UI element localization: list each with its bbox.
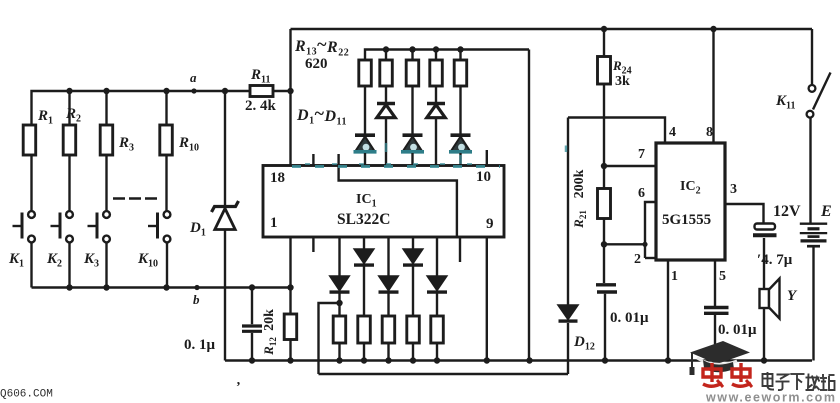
scan artifact dashes	[292, 165, 500, 168]
watermark graduation cap	[690, 341, 750, 364]
resistor bank column 4	[433, 46, 439, 52]
capacitor C 0.01u left	[601, 241, 607, 247]
pin 1 stub	[667, 260, 669, 361]
resistor lower column 1	[333, 316, 346, 343]
capacitor C 0.1u	[249, 284, 255, 290]
svg-text:9: 9	[486, 216, 494, 232]
svg-text:10: 10	[476, 169, 491, 185]
resistor R12 20k	[287, 284, 293, 290]
wire K11 to battery	[809, 118, 811, 223]
pin 9 drop wire	[486, 237, 488, 361]
diode lower column 3	[387, 237, 389, 276]
svg-text:20k: 20k	[262, 309, 277, 331]
diode bank column 4	[427, 102, 445, 106]
svg-text:200k: 200k	[572, 169, 587, 198]
switch K3	[103, 211, 110, 218]
pin stub top 313	[312, 154, 314, 166]
watermark site name	[763, 372, 775, 390]
svg-text:SL322C: SL322C	[337, 211, 390, 228]
diode lower column 1	[338, 237, 340, 276]
resistor bank column 5	[457, 46, 463, 52]
svg-text:5G1555: 5G1555	[662, 212, 711, 228]
svg-text:3: 3	[730, 182, 737, 197]
diode bank (teal) column 1	[355, 133, 375, 137]
svg-text:3k: 3k	[615, 74, 630, 89]
resistor lower column 2	[358, 316, 371, 343]
svg-text:a: a	[190, 70, 197, 85]
node a	[191, 88, 196, 93]
svg-text:Q606.COM: Q606.COM	[0, 389, 53, 401]
resistor R24 3k	[601, 26, 607, 32]
pin stub top 487	[486, 150, 488, 166]
diode lower column 2	[363, 237, 365, 249]
wire pin3 out	[725, 204, 764, 223]
resistor lower column 5	[431, 316, 444, 343]
svg-text:6: 6	[638, 186, 645, 201]
wire bank bus drop to rail	[528, 50, 530, 361]
switch K10	[164, 211, 171, 218]
wire top-left bus a	[32, 91, 251, 125]
svg-text:5: 5	[719, 269, 726, 284]
timer U2 IC2 5G1555	[656, 143, 725, 260]
switch K1	[28, 211, 35, 218]
resistor R10	[163, 88, 169, 94]
wire feedback L to lower rail	[319, 303, 340, 374]
diode bank (teal) column 3	[403, 133, 423, 137]
capacitor C 4.7u electrolytic	[755, 224, 776, 230]
pin 5 stub	[714, 260, 716, 306]
node feedback junction	[336, 300, 342, 306]
pin 8	[712, 29, 714, 143]
svg-text:2: 2	[634, 252, 641, 267]
svg-text:E: E	[820, 203, 832, 220]
wire top supply bus	[291, 28, 813, 30]
watermark chongchong red	[703, 363, 723, 387]
wire internal crossing	[339, 166, 457, 238]
wire trigger link pins 6-2	[645, 202, 656, 258]
capacitor C 0.01u right	[704, 306, 729, 309]
svg-text:18: 18	[270, 170, 285, 186]
wire pin4 feed	[568, 118, 665, 144]
diode D1 zener	[222, 88, 228, 94]
resistor R1	[30, 155, 32, 212]
diode lower column 5	[436, 237, 438, 276]
resistor R11	[250, 86, 273, 97]
resistor lower column 4	[407, 316, 420, 343]
svg-text:12V: 12V	[773, 203, 801, 220]
svg-text:’: ’	[236, 380, 241, 395]
pin stub bottom 460	[459, 237, 461, 262]
svg-text:0. 01μ: 0. 01μ	[718, 322, 757, 338]
svg-text:www.eeworm.com: www.eeworm.com	[705, 391, 837, 403]
speaker Y	[763, 308, 765, 361]
op-amp U1 IC1 SL322C	[263, 166, 504, 238]
dashed continuation hint	[113, 197, 160, 200]
svg-text:2. 4k: 2. 4k	[245, 98, 277, 114]
node b	[194, 285, 199, 290]
resistor R2	[66, 88, 72, 94]
switch K11	[811, 29, 813, 85]
diode bank column 2	[377, 102, 395, 106]
svg-text:1: 1	[270, 215, 278, 231]
diode D12	[567, 118, 569, 305]
svg-text:4: 4	[669, 125, 676, 140]
svg-text:ʹ4. 7μ: ʹ4. 7μ	[757, 252, 793, 268]
svg-text:7: 7	[638, 147, 645, 162]
wire ground rail	[225, 359, 812, 361]
wire pin7 link	[601, 163, 607, 169]
switch K2	[66, 211, 73, 218]
svg-text:620: 620	[305, 56, 328, 72]
wire bottom bus b	[32, 286, 291, 288]
wire lower return rail	[319, 373, 569, 375]
diode lower column 4	[412, 237, 414, 249]
resistor R3	[103, 88, 109, 94]
diode bank (teal) column 5	[451, 133, 471, 137]
resistor bank column 2	[383, 46, 389, 52]
svg-text:8: 8	[706, 125, 713, 140]
svg-text:0. 1μ: 0. 1μ	[184, 337, 216, 353]
pin stub top 338	[337, 154, 339, 166]
resistor bank column 3	[409, 46, 415, 52]
svg-text:1: 1	[671, 269, 678, 284]
svg-text:0. 01μ: 0. 01μ	[610, 310, 649, 326]
pin stub bottom 313	[312, 237, 314, 252]
resistor lower column 3	[382, 316, 395, 343]
resistor bank column 1	[359, 60, 372, 86]
svg-text:b: b	[193, 292, 200, 307]
wire bank bus	[365, 50, 529, 61]
battery E 12V	[800, 223, 827, 225]
wire riser to R11 junction	[289, 29, 291, 166]
resistor R21 200k	[603, 166, 605, 189]
